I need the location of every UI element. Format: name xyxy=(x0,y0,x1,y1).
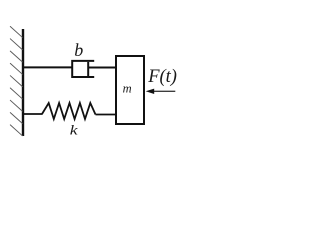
svg-text:m: m xyxy=(123,82,132,96)
force arrow shaft xyxy=(153,90,175,92)
wire spring rod right xyxy=(96,114,117,116)
mass m block xyxy=(116,56,144,124)
wire damper rod left xyxy=(23,66,73,68)
wire spring rod left xyxy=(23,113,43,115)
spring k zigzag xyxy=(42,103,96,119)
svg-text:F(t): F(t) xyxy=(147,67,177,87)
damper b piston xyxy=(87,62,89,76)
damper b cylinder xyxy=(72,61,94,77)
wire damper rod right xyxy=(88,67,116,69)
svg-text:k: k xyxy=(70,123,79,138)
wall xyxy=(22,29,24,136)
svg-text:b: b xyxy=(74,40,83,60)
wall hatching xyxy=(10,27,22,136)
force arrow head xyxy=(146,89,155,94)
